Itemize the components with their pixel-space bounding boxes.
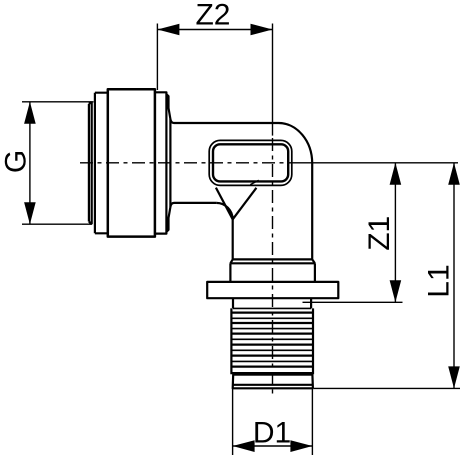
svg-text:D1: D1 [253,417,291,450]
svg-text:Z1: Z1 [363,216,396,251]
svg-text:L1: L1 [423,264,456,297]
svg-text:G: G [0,150,33,173]
svg-text:Z2: Z2 [195,0,230,31]
